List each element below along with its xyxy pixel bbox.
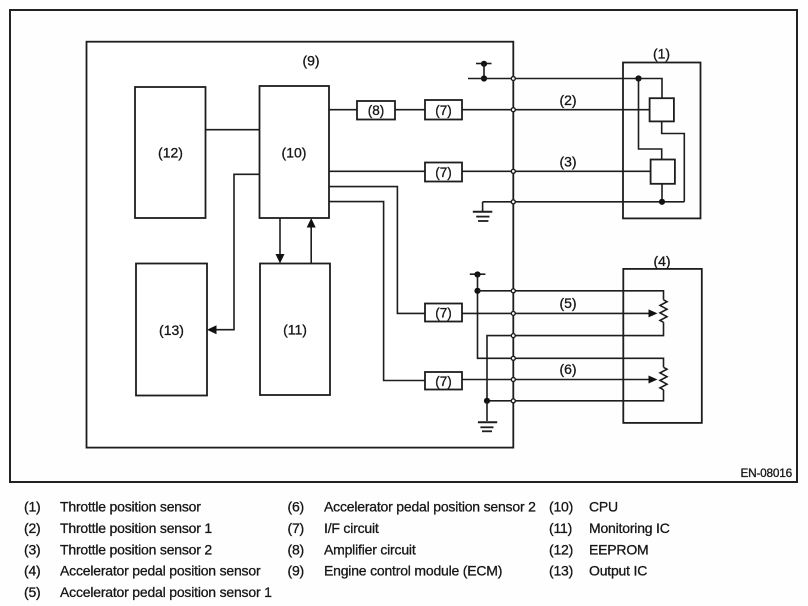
svg-text:Accelerator pedal position sen: Accelerator pedal position sensor 2 [324, 499, 536, 515]
legend entry 6 [288, 499, 537, 515]
throttle position sensor box (1) [623, 63, 701, 219]
wire node to resistor R1 top [639, 79, 663, 99]
connector pin row 3 [511, 169, 515, 173]
connector pin power P2 [511, 356, 515, 360]
connector pin row A [511, 77, 515, 81]
svg-text:(12): (12) [549, 541, 573, 557]
power stub wire lower [478, 274, 514, 358]
svg-text:(6): (6) [288, 499, 305, 515]
svg-text:(13): (13) [159, 322, 184, 338]
svg-text:(1): (1) [653, 46, 670, 62]
connector pin row 2 [511, 108, 515, 112]
connector pin (5) [511, 311, 515, 315]
svg-text:(11): (11) [549, 520, 572, 536]
svg-text:(8): (8) [368, 103, 385, 118]
svg-text:(6): (6) [559, 361, 576, 377]
ground symbol upper [473, 202, 493, 221]
svg-text:(4): (4) [24, 563, 41, 579]
potentiometer P2 zigzag [660, 367, 667, 390]
svg-text:(4): (4) [653, 253, 670, 269]
arrowhead down into (11) [276, 254, 285, 264]
wire CPU to Output IC with arrow [215, 174, 260, 329]
svg-text:Engine control module (ECM): Engine control module (ECM) [324, 563, 502, 579]
potentiometer P1 zigzag [660, 300, 667, 323]
svg-text:I/F circuit: I/F circuit [324, 520, 379, 536]
ground wire row D [483, 201, 685, 203]
svg-text:Throttle position sensor 1: Throttle position sensor 1 [60, 520, 212, 536]
svg-text:Accelerator pedal position sen: Accelerator pedal position sensor 1 [60, 584, 272, 600]
svg-text:(7): (7) [435, 165, 452, 180]
svg-text:(10): (10) [549, 499, 573, 515]
legend entry 12 [549, 541, 648, 557]
connector pin (6) [511, 378, 515, 382]
wire EEPROM to CPU [206, 129, 260, 131]
wire power to potentiometer P2 top (row 4) [513, 358, 663, 367]
power dot upper on tick [481, 61, 487, 67]
arrow CPU down to Monitoring IC [279, 218, 281, 255]
power supply tick lower [470, 273, 486, 275]
wire power row A to sensor (1) [468, 78, 639, 80]
junction dot ground row [659, 199, 665, 205]
junction dot lower power [474, 288, 480, 294]
I/F circuit box (7) fourth [425, 372, 462, 390]
outer border frame [10, 10, 797, 482]
wire CPU to lower I/F fourth [329, 202, 425, 381]
legend entry 11 [549, 520, 670, 536]
legend entry 1 [24, 499, 201, 515]
arrow Monitoring IC up to CPU [310, 227, 312, 263]
connector pin P1 return [511, 334, 515, 338]
wire amplifier to I/F [395, 109, 425, 111]
svg-text:(2): (2) [559, 92, 576, 108]
Output IC block (13) [136, 264, 207, 396]
I/F circuit box (7) second [425, 163, 462, 182]
power supply tick upper [476, 63, 492, 65]
svg-text:(7): (7) [435, 306, 452, 321]
ground wire row 6 [487, 390, 664, 401]
svg-text:(11): (11) [283, 322, 307, 338]
arrowhead into (13) [207, 325, 217, 334]
svg-text:(7): (7) [435, 374, 452, 389]
wire node down to resistor R2 top [639, 79, 662, 160]
legend entry 8 [288, 541, 416, 557]
svg-text:(7): (7) [288, 520, 305, 536]
svg-text:Amplifier circuit: Amplifier circuit [324, 541, 416, 557]
svg-text:(9): (9) [288, 563, 305, 579]
arrowhead up into (10) [307, 218, 316, 228]
legend entry 3 [24, 541, 212, 557]
svg-text:Output IC: Output IC [589, 563, 647, 579]
svg-text:(3): (3) [559, 154, 576, 170]
svg-text:(10): (10) [282, 145, 307, 161]
connector pin power lower [511, 289, 515, 293]
ECM box (9) [87, 42, 514, 448]
svg-text:(5): (5) [559, 295, 576, 311]
svg-text:(3): (3) [24, 541, 41, 557]
sensor element R1 [650, 98, 674, 121]
svg-text:(9): (9) [302, 53, 319, 69]
wire power to potentiometer P1 top (row 1) [478, 291, 664, 300]
amplifier circuit box (8) [357, 101, 395, 120]
connector pin ground upper [511, 200, 515, 204]
power stub wire upper [483, 64, 485, 79]
svg-text:EEPROM: EEPROM [589, 541, 648, 557]
legend entry 4 [24, 563, 261, 579]
wire CPU to lower I/F third [329, 187, 425, 314]
connector pin ground lower [511, 399, 515, 403]
wire CPU to I/F (row 3) [329, 170, 425, 172]
svg-text:Throttle position sensor: Throttle position sensor [60, 499, 201, 515]
accelerator pedal position sensor box (4) [623, 269, 702, 423]
svg-text:(2): (2) [24, 520, 41, 536]
svg-text:(13): (13) [549, 563, 573, 579]
junction dot node in sensor (1) [635, 75, 641, 81]
svg-text:(5): (5) [24, 584, 41, 600]
wire I/F to throttle sensor 1 (2) [462, 109, 650, 111]
wire (6) with wiper arrow [462, 379, 650, 381]
svg-text:CPU: CPU [589, 499, 618, 515]
wire R1 bottom to ground row [662, 121, 685, 201]
legend entry 5 [24, 584, 272, 600]
I/F circuit box (7) top [425, 100, 462, 120]
ground symbol lower [478, 401, 497, 432]
svg-text:Accelerator pedal position sen: Accelerator pedal position sensor [60, 563, 261, 579]
legend entry 2 [24, 520, 212, 536]
legend entry 7 [288, 520, 379, 536]
sensor element R2 [651, 160, 675, 184]
junction dot upper power [481, 75, 487, 81]
wire I/F to throttle sensor 2 (3) [462, 170, 651, 172]
arrowhead wiper P2 [649, 376, 658, 384]
CPU block (10) [260, 86, 330, 218]
junction dot lower ground [484, 398, 490, 404]
wire (5) with wiper arrow [462, 312, 650, 314]
legend entry 10 [549, 499, 618, 515]
svg-text:(7): (7) [435, 103, 452, 118]
svg-text:EN-08016: EN-08016 [740, 466, 792, 480]
wire CPU to amplifier (row 2) [329, 109, 357, 111]
wire R2 bottom to ground row [661, 184, 663, 202]
power dot lower on tick [474, 271, 480, 277]
I/F circuit box (7) third [425, 304, 462, 322]
svg-text:Throttle position sensor 2: Throttle position sensor 2 [60, 541, 212, 557]
svg-text:(12): (12) [158, 145, 183, 161]
svg-text:(8): (8) [288, 541, 305, 557]
wire P1 bottom return (row 3) [487, 322, 664, 401]
Monitoring IC block (11) [260, 264, 330, 396]
legend entry 9 [288, 563, 503, 579]
svg-text:(1): (1) [24, 499, 41, 515]
arrowhead wiper P1 [649, 309, 658, 317]
svg-text:Monitoring IC: Monitoring IC [589, 520, 670, 536]
legend entry 13 [549, 563, 647, 579]
EEPROM block (12) [135, 87, 206, 218]
